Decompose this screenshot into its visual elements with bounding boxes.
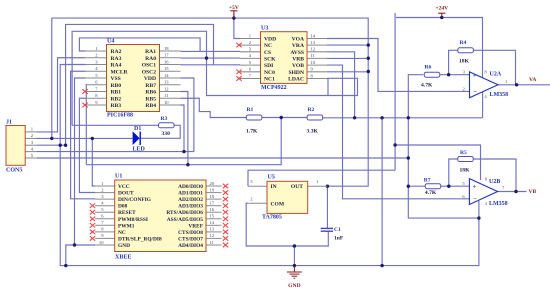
- svg-text:LDAC: LDAC: [288, 77, 304, 83]
- svg-text:8: 8: [485, 177, 487, 182]
- svg-text:17: 17: [164, 53, 169, 58]
- svg-text:330: 330: [162, 131, 171, 137]
- svg-text:AD3/DIO3: AD3/DIO3: [178, 204, 203, 210]
- svg-text:VDD: VDD: [144, 76, 156, 82]
- svg-text:VDD: VDD: [264, 37, 276, 43]
- svg-text:VOB: VOB: [292, 63, 304, 69]
- svg-text:11: 11: [311, 53, 316, 58]
- svg-text:SCK: SCK: [264, 56, 276, 62]
- svg-text:RA3: RA3: [111, 56, 122, 62]
- svg-text:VA: VA: [529, 77, 536, 83]
- svg-text:20: 20: [210, 181, 215, 186]
- svg-text:SDI: SDI: [264, 63, 273, 69]
- svg-text:R7: R7: [424, 178, 431, 184]
- svg-text:3.3K: 3.3K: [307, 128, 319, 134]
- svg-text:LM358: LM358: [489, 201, 508, 207]
- svg-text:VRA: VRA: [292, 43, 304, 49]
- svg-text:18: 18: [164, 46, 169, 51]
- svg-text:+: +: [473, 183, 477, 190]
- svg-text:11: 11: [164, 93, 169, 98]
- svg-text:U1: U1: [115, 174, 122, 180]
- svg-text:MCP4922: MCP4922: [261, 85, 287, 91]
- svg-text:R6: R6: [425, 65, 432, 71]
- svg-text:R2: R2: [308, 107, 315, 113]
- svg-text:DOUT: DOUT: [118, 191, 134, 197]
- svg-text:VREF: VREF: [188, 223, 203, 229]
- svg-text:DIN/CONFIG: DIN/CONFIG: [118, 197, 152, 203]
- svg-text:CTS/DIO8: CTS/DIO8: [178, 230, 203, 236]
- svg-text:13: 13: [311, 40, 316, 45]
- svg-text:ASS/AD5/DIO5: ASS/AD5/DIO5: [167, 217, 204, 223]
- svg-text:NC: NC: [264, 43, 272, 49]
- svg-text:U3: U3: [261, 26, 268, 32]
- svg-text:PWM0/RSSI: PWM0/RSSI: [118, 217, 148, 223]
- svg-text:RA1: RA1: [145, 49, 156, 55]
- svg-text:OUT: OUT: [291, 184, 303, 190]
- svg-text:J1: J1: [6, 120, 12, 126]
- svg-text:IN: IN: [271, 184, 277, 190]
- svg-text:AD2/DIO2: AD2/DIO2: [178, 197, 203, 203]
- svg-text:AD4/DIO4: AD4/DIO4: [178, 243, 203, 249]
- svg-text:U2A: U2A: [490, 72, 502, 78]
- svg-text:AVSS: AVSS: [290, 50, 304, 56]
- svg-text:VOA: VOA: [292, 37, 304, 43]
- svg-text:AD1/DIO1: AD1/DIO1: [178, 191, 203, 197]
- svg-text:1.7K: 1.7K: [246, 128, 258, 134]
- svg-text:GND: GND: [118, 243, 130, 249]
- svg-text:16: 16: [164, 59, 169, 64]
- svg-text:18K: 18K: [460, 168, 471, 174]
- svg-text:VSS: VSS: [111, 76, 121, 82]
- svg-text:R3: R3: [161, 116, 168, 122]
- svg-text:+5V: +5V: [229, 5, 239, 11]
- svg-text:PWM1: PWM1: [118, 223, 135, 229]
- svg-text:CS: CS: [264, 50, 271, 56]
- svg-text:RB7: RB7: [145, 83, 156, 89]
- svg-text:NC1: NC1: [264, 77, 275, 83]
- svg-text:RB1: RB1: [111, 90, 122, 96]
- svg-text:12: 12: [164, 86, 169, 91]
- svg-text:14: 14: [311, 33, 316, 38]
- svg-text:RB2: RB2: [111, 96, 122, 102]
- svg-text:OSC2: OSC2: [142, 69, 157, 75]
- svg-text:LM358: LM358: [490, 92, 509, 98]
- svg-text:RA2: RA2: [111, 49, 122, 55]
- svg-text:PIC16F88: PIC16F88: [107, 113, 133, 119]
- svg-text:AD0/DIO0: AD0/DIO0: [178, 184, 203, 190]
- svg-text:18K: 18K: [459, 59, 470, 65]
- svg-text:RB3: RB3: [111, 103, 122, 109]
- svg-text:TA7805: TA7805: [262, 214, 282, 220]
- svg-text:−: −: [473, 88, 477, 95]
- svg-text:SHDN: SHDN: [288, 70, 304, 76]
- svg-text:DTR/SLP_RQ/DI8: DTR/SLP_RQ/DI8: [118, 236, 162, 242]
- svg-text:VRB: VRB: [292, 56, 304, 62]
- svg-text:14: 14: [164, 73, 169, 78]
- svg-text:RB4: RB4: [145, 103, 156, 109]
- svg-text:GND: GND: [288, 283, 300, 289]
- svg-text:16: 16: [210, 207, 215, 212]
- svg-text:13: 13: [164, 80, 169, 85]
- svg-text:RB6: RB6: [145, 90, 156, 96]
- svg-text:CTS/DIO7: CTS/DIO7: [178, 236, 203, 242]
- svg-text:R5: R5: [460, 150, 467, 156]
- svg-text:U4: U4: [107, 39, 114, 45]
- svg-text:D08: D08: [118, 204, 128, 210]
- svg-text:NC0: NC0: [264, 70, 275, 76]
- svg-text:10: 10: [99, 240, 104, 245]
- svg-text:RESET: RESET: [118, 210, 136, 216]
- svg-text:LED: LED: [133, 147, 146, 153]
- svg-text:R1: R1: [247, 107, 254, 113]
- svg-text:12: 12: [210, 233, 215, 238]
- svg-text:15: 15: [164, 66, 169, 71]
- svg-text:MCLR: MCLR: [111, 69, 129, 75]
- svg-text:VB: VB: [529, 189, 537, 195]
- svg-text:NC: NC: [118, 230, 126, 236]
- svg-text:1nF: 1nF: [334, 236, 344, 242]
- svg-text:COM: COM: [271, 202, 285, 208]
- svg-text:RA0: RA0: [145, 56, 156, 62]
- svg-text:4.7K: 4.7K: [425, 190, 437, 196]
- svg-text:+24V: +24V: [435, 6, 448, 12]
- svg-text:OSC1: OSC1: [142, 63, 157, 69]
- svg-text:14: 14: [210, 220, 215, 225]
- svg-text:XBEE: XBEE: [115, 255, 131, 261]
- svg-text:10: 10: [164, 100, 169, 105]
- svg-text:RB5: RB5: [145, 96, 156, 102]
- svg-text:U2B: U2B: [489, 179, 500, 185]
- svg-text:R4: R4: [460, 40, 467, 46]
- svg-text:8: 8: [485, 70, 487, 75]
- svg-text:18: 18: [210, 194, 215, 199]
- svg-text:12: 12: [311, 47, 316, 52]
- svg-text:CON5: CON5: [6, 168, 22, 174]
- svg-text:VCC: VCC: [118, 184, 130, 190]
- svg-text:RB0: RB0: [111, 83, 122, 89]
- svg-text:4.7K: 4.7K: [421, 83, 433, 89]
- svg-text:17: 17: [210, 201, 215, 206]
- svg-text:19: 19: [210, 187, 215, 192]
- svg-text:11: 11: [210, 240, 215, 245]
- svg-text:10: 10: [311, 60, 316, 65]
- svg-text:RTS/AD6/DIO6: RTS/AD6/DIO6: [166, 210, 203, 216]
- svg-text:RA4: RA4: [111, 63, 122, 69]
- svg-text:D1: D1: [134, 126, 141, 132]
- svg-text:+: +: [473, 72, 477, 79]
- svg-text:15: 15: [210, 214, 215, 219]
- svg-text:U5: U5: [268, 174, 275, 180]
- svg-text:C1: C1: [334, 227, 341, 233]
- svg-text:13: 13: [210, 227, 215, 232]
- svg-text:−: −: [473, 196, 477, 203]
